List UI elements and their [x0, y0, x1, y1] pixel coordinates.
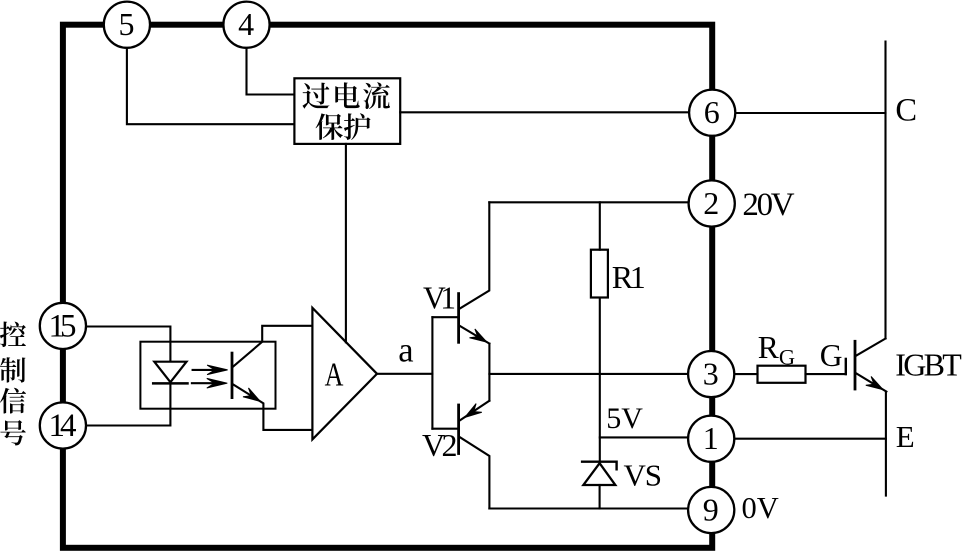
light arrow 2 [192, 378, 227, 388]
label 过电流 (overcurrent) [302, 82, 389, 109]
node pin 14 [40, 402, 86, 448]
wire collector vertical [884, 42, 886, 339]
V2 collector lead [460, 437, 489, 508]
transistor V1 base lead [432, 316, 458, 318]
LED D1 [153, 362, 187, 384]
V2 emitter lead [460, 401, 489, 421]
svg-text:0V: 0V [742, 491, 779, 525]
IGBT gate bar [845, 359, 847, 374]
overcurrent protection box U2 [294, 78, 400, 144]
svg-text:V2: V2 [422, 427, 458, 463]
wire base vertical V1-V2 [431, 317, 433, 429]
node pin 2 [689, 180, 735, 226]
svg-text:G: G [820, 338, 843, 373]
svg-text:15: 15 [49, 308, 77, 344]
svg-text:9: 9 [703, 492, 719, 528]
opto-coupler box [140, 342, 275, 409]
wire LED cathode to pin14 [86, 385, 170, 426]
label 控制信号 (control signal) [0, 322, 26, 446]
IGBT collector lead [856, 339, 886, 356]
wire pin2 rail [489, 201, 688, 203]
node pin 4 [223, 2, 269, 48]
wire overcurrent box to pin6 [400, 111, 689, 113]
transistor IGBT body bar [854, 341, 857, 389]
wire push-pull output node [488, 344, 490, 401]
V1 collector lead [460, 202, 490, 308]
svg-text:VS: VS [624, 458, 663, 493]
wire rail down to R1 [599, 202, 601, 249]
wire amp output to node a [377, 373, 432, 375]
transistor V2 bar [457, 405, 460, 454]
op-amp A triangle [312, 308, 377, 440]
svg-text:2: 2 [703, 185, 719, 221]
resistor R1 [591, 250, 608, 298]
phototransistor emitter [233, 384, 313, 430]
node pin 6 [689, 90, 735, 136]
wire pin3 to gate resistor [734, 373, 758, 375]
node pin 3 [688, 351, 734, 397]
wire emitter vertical [885, 392, 887, 496]
V1 emitter lead [460, 326, 490, 344]
wire pin4 to overcurrent box [247, 48, 295, 95]
svg-text:5V: 5V [606, 402, 643, 435]
node pin 9 [688, 487, 734, 533]
svg-text:6: 6 [704, 94, 720, 130]
light arrow 1 [193, 365, 228, 375]
svg-text:14: 14 [49, 408, 77, 444]
svg-text:a: a [398, 332, 413, 370]
wire RG to gate [806, 373, 846, 375]
svg-text:C: C [895, 92, 917, 128]
svg-text:R1: R1 [612, 259, 646, 295]
wire output to pin3 [489, 373, 689, 375]
IGBT emitter lead [856, 373, 887, 391]
wire pin5 to overcurrent box [127, 48, 295, 125]
label 保护 (protection) [316, 113, 371, 140]
wire overcurrent box down to amplifier A [345, 144, 347, 342]
transistor V1 bar [457, 294, 460, 343]
svg-text:A: A [325, 357, 344, 394]
wire pin15 to LED anode [86, 327, 171, 362]
phototransistor bar [231, 353, 234, 398]
svg-text:20V: 20V [742, 187, 794, 223]
svg-text:4: 4 [238, 6, 254, 42]
phototransistor collector [233, 326, 313, 367]
svg-text:5: 5 [119, 6, 135, 42]
svg-text:IGBT: IGBT [895, 346, 962, 382]
svg-text:V1: V1 [423, 281, 456, 316]
transistor V2 base lead [432, 428, 458, 430]
svg-text:1: 1 [703, 420, 719, 456]
node pin 15 [40, 303, 86, 349]
zener diode VS [582, 462, 617, 485]
node pin 1 [688, 416, 734, 462]
wire 0V rail to pin9 [489, 507, 689, 509]
wire R1 down to zener [599, 298, 601, 462]
wire pin6 to collector node C [735, 112, 885, 114]
module body outline (hybrid IC border) [63, 25, 712, 548]
svg-text:E: E [896, 419, 915, 454]
resistor RG [758, 366, 806, 383]
svg-text:3: 3 [703, 356, 719, 392]
wire pin1 to emitter node E [734, 438, 886, 440]
wire 5V tap to pin1 [600, 436, 689, 438]
node pin 5 [104, 2, 150, 48]
wire zener to 0V rail [599, 485, 601, 509]
